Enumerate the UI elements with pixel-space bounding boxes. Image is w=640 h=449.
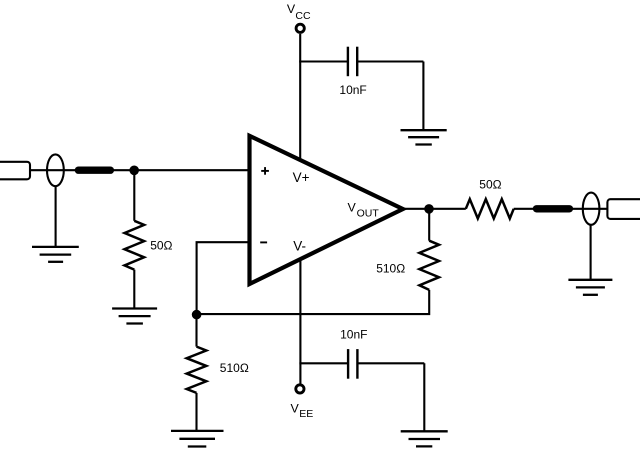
svg-text:510Ω: 510Ω bbox=[376, 261, 405, 275]
svg-text:CC: CC bbox=[295, 10, 311, 22]
svg-text:10nF: 10nF bbox=[339, 83, 366, 97]
svg-text:EE: EE bbox=[299, 408, 313, 420]
svg-text:510Ω: 510Ω bbox=[220, 361, 249, 375]
svg-text:V: V bbox=[348, 200, 357, 214]
svg-text:V: V bbox=[291, 402, 300, 416]
svg-text:50Ω: 50Ω bbox=[150, 239, 172, 253]
svg-text:10nF: 10nF bbox=[340, 328, 367, 342]
svg-text:50Ω: 50Ω bbox=[479, 178, 501, 192]
svg-text:V+: V+ bbox=[293, 170, 310, 185]
svg-text:V-: V- bbox=[293, 239, 306, 254]
svg-text:OUT: OUT bbox=[357, 208, 380, 220]
